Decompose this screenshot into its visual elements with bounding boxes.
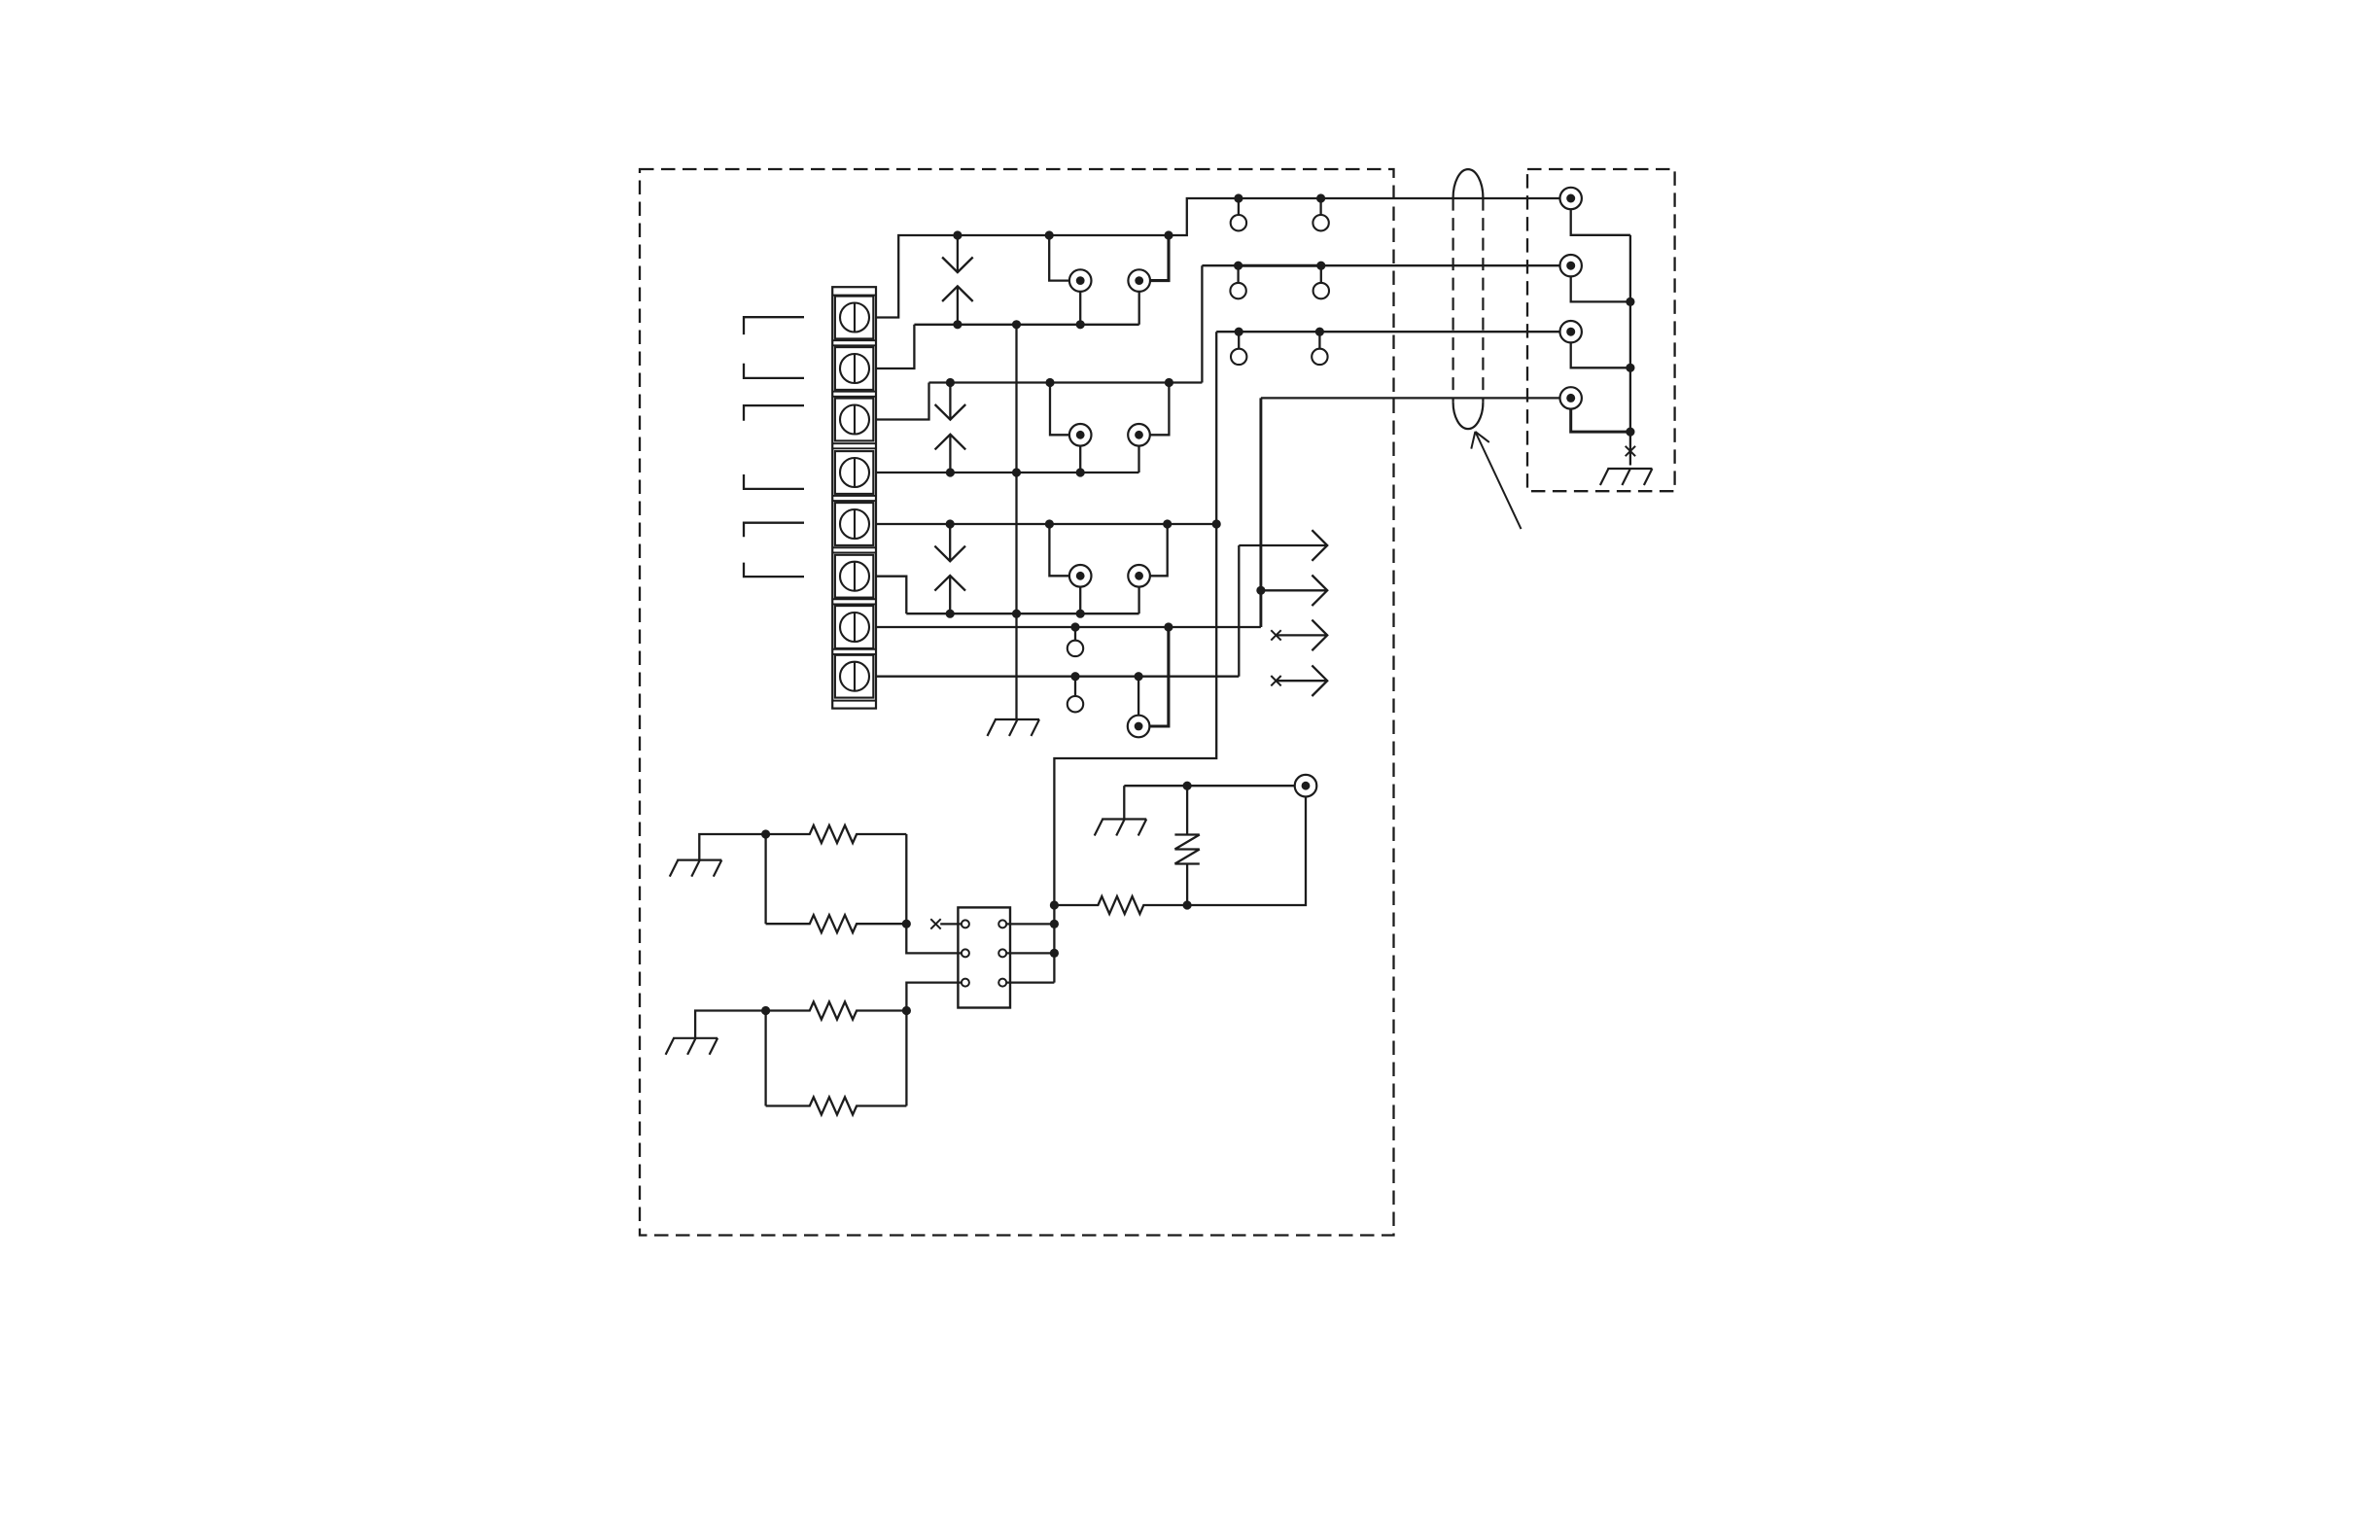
wire row2 heavy segment: [1239, 264, 1321, 267]
wire ground G3 to R1: [699, 834, 765, 860]
internal ground G1: [988, 719, 1040, 736]
no-connection mark arrow4: [1271, 676, 1280, 685]
junction varistor bottom: [1183, 900, 1192, 909]
junction arrester A2 top: [946, 378, 955, 387]
junction t7 check point: [1070, 622, 1079, 631]
junction row1 point b: [1316, 193, 1325, 202]
shielded cable symbol: [1453, 169, 1484, 429]
junction J3 bus: [1626, 364, 1634, 372]
wire bus to receiver ground: [1629, 432, 1631, 465]
junction arrester A1 top: [953, 230, 962, 239]
junction TP1 bottom: [1076, 320, 1085, 329]
junction arrester A2 bottom: [946, 468, 955, 476]
resistor R1: [766, 825, 907, 843]
junction row2 point a: [1234, 262, 1242, 270]
wire terminal3 riser: [876, 383, 929, 420]
junction R2 right: [902, 920, 911, 928]
junction t7 jack tap: [1164, 622, 1172, 631]
disconnect terminal t8: [1067, 696, 1083, 712]
output arrow 3: [1277, 620, 1328, 651]
connector J1: [1560, 188, 1582, 209]
junction R3 left: [761, 1006, 770, 1015]
line C ground G4: [666, 1038, 718, 1055]
junction R3 right: [902, 1006, 911, 1015]
junction TP2 on top rail: [1164, 230, 1172, 239]
wire TP4 stub: [1150, 383, 1170, 436]
surge arrester A1: [942, 235, 973, 325]
line D ground G5: [1095, 820, 1147, 836]
junction TP3 riser: [1045, 378, 1054, 387]
connector J3: [1560, 321, 1582, 342]
disconnect terminal row2 a: [1230, 283, 1245, 298]
wire R1 to R2 left: [764, 834, 766, 924]
sensor lead bracket B4: [744, 474, 804, 489]
wire row1 point b stub: [1319, 198, 1321, 215]
wire TP6 stub: [1150, 524, 1168, 576]
junction J2 bus: [1626, 297, 1634, 306]
wire jack TP7 top stub: [1137, 677, 1139, 716]
surge arrester A3: [934, 524, 965, 613]
wire test jack TP3 riser: [1050, 383, 1069, 436]
rail group3 plus: [876, 523, 1216, 525]
junction arrester A1 bottom: [953, 320, 962, 329]
test jack TP5: [1069, 565, 1092, 587]
transmitter enclosure (dashed): [640, 169, 1394, 1236]
wire row3 point a stub: [1238, 332, 1240, 349]
junction R1 left: [761, 829, 770, 838]
wire node column: [1053, 905, 1055, 983]
junction row3 point b: [1315, 328, 1324, 336]
wire R3 to R4 left: [764, 1011, 766, 1106]
wire arrow1 riser: [1238, 545, 1240, 677]
sensor lead bracket B1: [744, 317, 804, 334]
junction arrow2 tap: [1256, 586, 1265, 595]
sensor lead bracket B6: [744, 563, 804, 577]
wire J1 to shield bus: [1571, 209, 1630, 235]
wire terminal7 output: [876, 626, 1261, 628]
connector J4: [1560, 387, 1582, 408]
wire TP2 stub: [1150, 235, 1169, 281]
surge absorber Z1: [1174, 786, 1199, 905]
wire t7 check stub: [1074, 627, 1076, 641]
wire ground G4 to R3: [695, 1011, 766, 1038]
wire terminal6 riser: [876, 577, 906, 614]
junction arrester A3 bottom: [946, 610, 955, 618]
wire terminal1 to top rail: [876, 198, 1559, 318]
output arrow 1: [1239, 530, 1327, 561]
rail group3 minus: [906, 612, 1138, 614]
output arrow 4: [1277, 665, 1328, 696]
wire test jack TP1 riser: [1049, 235, 1069, 281]
junction TP1 riser: [1045, 230, 1054, 239]
wire R1 right drop: [906, 834, 962, 953]
junction t8 jack tap: [1135, 672, 1143, 681]
connector J2: [1560, 255, 1582, 276]
no-connection mark range pin: [930, 919, 940, 928]
shunt resistor R5: [1054, 896, 1187, 914]
junction J4 bus: [1626, 428, 1634, 437]
test jack TP1: [1069, 269, 1092, 292]
rail group2 minus: [876, 472, 1139, 473]
resistor R4: [766, 1098, 907, 1115]
wire row4 riser: [1259, 398, 1262, 627]
disconnect terminal row1 b: [1312, 215, 1328, 230]
line B ground G3: [670, 860, 722, 877]
junction TP5 bottom: [1076, 610, 1085, 618]
test jack TP4: [1128, 424, 1150, 446]
wire x to range pin1: [940, 923, 962, 925]
annotation arrow to cable shield: [1471, 432, 1521, 529]
wire jack TP7 right stub: [1150, 627, 1169, 726]
junction TP3 bottom: [1076, 468, 1085, 476]
junction varistor top: [1183, 782, 1192, 790]
sensor lead bracket B3: [744, 405, 804, 421]
receiver chassis ground G2: [1600, 469, 1653, 485]
wire row3 to connector: [1216, 331, 1559, 332]
range setting jumper box U1: [958, 907, 1010, 1007]
junction pin4 node: [1050, 920, 1059, 928]
wire TP2 to rail end: [1138, 292, 1140, 325]
disconnect terminal row3 a: [1231, 349, 1246, 365]
wire row2 point b stub: [1320, 265, 1322, 283]
wire J4 to shield bus: [1571, 409, 1630, 433]
disconnect terminal row2 b: [1313, 283, 1329, 298]
surge arrester A2: [935, 383, 966, 473]
junction row3 riser on rail3: [1212, 519, 1221, 528]
rail group2 plus: [929, 381, 1203, 383]
wire terminal8 output: [876, 676, 1239, 678]
wire row2 to connector: [1202, 264, 1559, 266]
test jack TP2: [1128, 269, 1150, 292]
check jack TP8: [1295, 775, 1317, 797]
junction pin5 node: [1050, 949, 1059, 958]
wire ground G5 riser: [1123, 786, 1125, 819]
wire TP8 left feed: [1124, 785, 1294, 787]
wire node line: [1187, 797, 1306, 906]
wire terminal2 riser: [876, 325, 914, 368]
wire row2 riser: [1201, 265, 1203, 382]
junction common line on rail1: [1012, 320, 1021, 329]
junction TP5 riser: [1045, 519, 1054, 528]
wire test jack TP5 riser: [1049, 524, 1069, 576]
sensor lead bracket B5: [744, 523, 804, 538]
wire TP6 to rail end: [1137, 587, 1139, 614]
disconnect terminal row3 b: [1312, 349, 1327, 365]
rail group1 minus: [914, 324, 1138, 326]
test jack TP6: [1128, 565, 1150, 587]
wire TP4 to rail end: [1137, 446, 1139, 473]
check jack TP7: [1128, 716, 1150, 738]
terminal block TB1 (8 screw terminals): [832, 287, 876, 708]
resistor R3: [766, 1002, 907, 1020]
resistor R2: [766, 915, 907, 932]
wire jumper pin5 out: [1006, 952, 1055, 954]
test jack TP3: [1069, 424, 1092, 446]
junction common line on rail2: [1012, 468, 1021, 476]
wire jumper pin4 out: [1006, 923, 1055, 925]
disconnect terminal t7: [1067, 641, 1083, 656]
wire row2 point a stub: [1237, 265, 1239, 283]
junction TP4 on rail2: [1165, 378, 1173, 387]
junction shunt tap: [1050, 900, 1059, 909]
wire jumper pin6 out: [1006, 981, 1055, 983]
wire TP3 to rail: [1079, 446, 1081, 473]
output arrow 2: [1261, 576, 1327, 607]
wire J2 to shield bus: [1571, 276, 1630, 301]
wire J3 to shield bus: [1571, 342, 1630, 367]
junction arrester A3 top: [946, 519, 955, 528]
junction row3 point a: [1235, 328, 1243, 336]
wire internal common to ground: [1015, 325, 1017, 719]
junction common line on rail3: [1012, 610, 1021, 618]
junction TP6 on rail3: [1163, 519, 1172, 528]
wire TP1 to rail: [1079, 292, 1081, 325]
shield bus: [1629, 235, 1631, 432]
wire t8 check stub: [1074, 677, 1076, 697]
wire row3 riser: [1054, 332, 1216, 905]
junction t8 check point: [1070, 672, 1079, 681]
sensor lead bracket B2: [744, 364, 804, 378]
receiver enclosure (dashed): [1527, 169, 1675, 491]
wire row3 point b stub: [1318, 332, 1320, 349]
wire R4 right riser: [906, 983, 962, 1106]
no-connection mark receiver ground: [1626, 446, 1635, 456]
disconnect terminal row1 a: [1231, 215, 1246, 230]
wire row4 to connector: [1261, 397, 1560, 399]
wire TP5 to rail: [1079, 587, 1081, 614]
junction row2 point b: [1316, 262, 1325, 270]
junction row1 point a: [1234, 193, 1242, 202]
no-connection mark arrow3: [1271, 630, 1280, 640]
wire row1 point a stub: [1238, 198, 1240, 215]
